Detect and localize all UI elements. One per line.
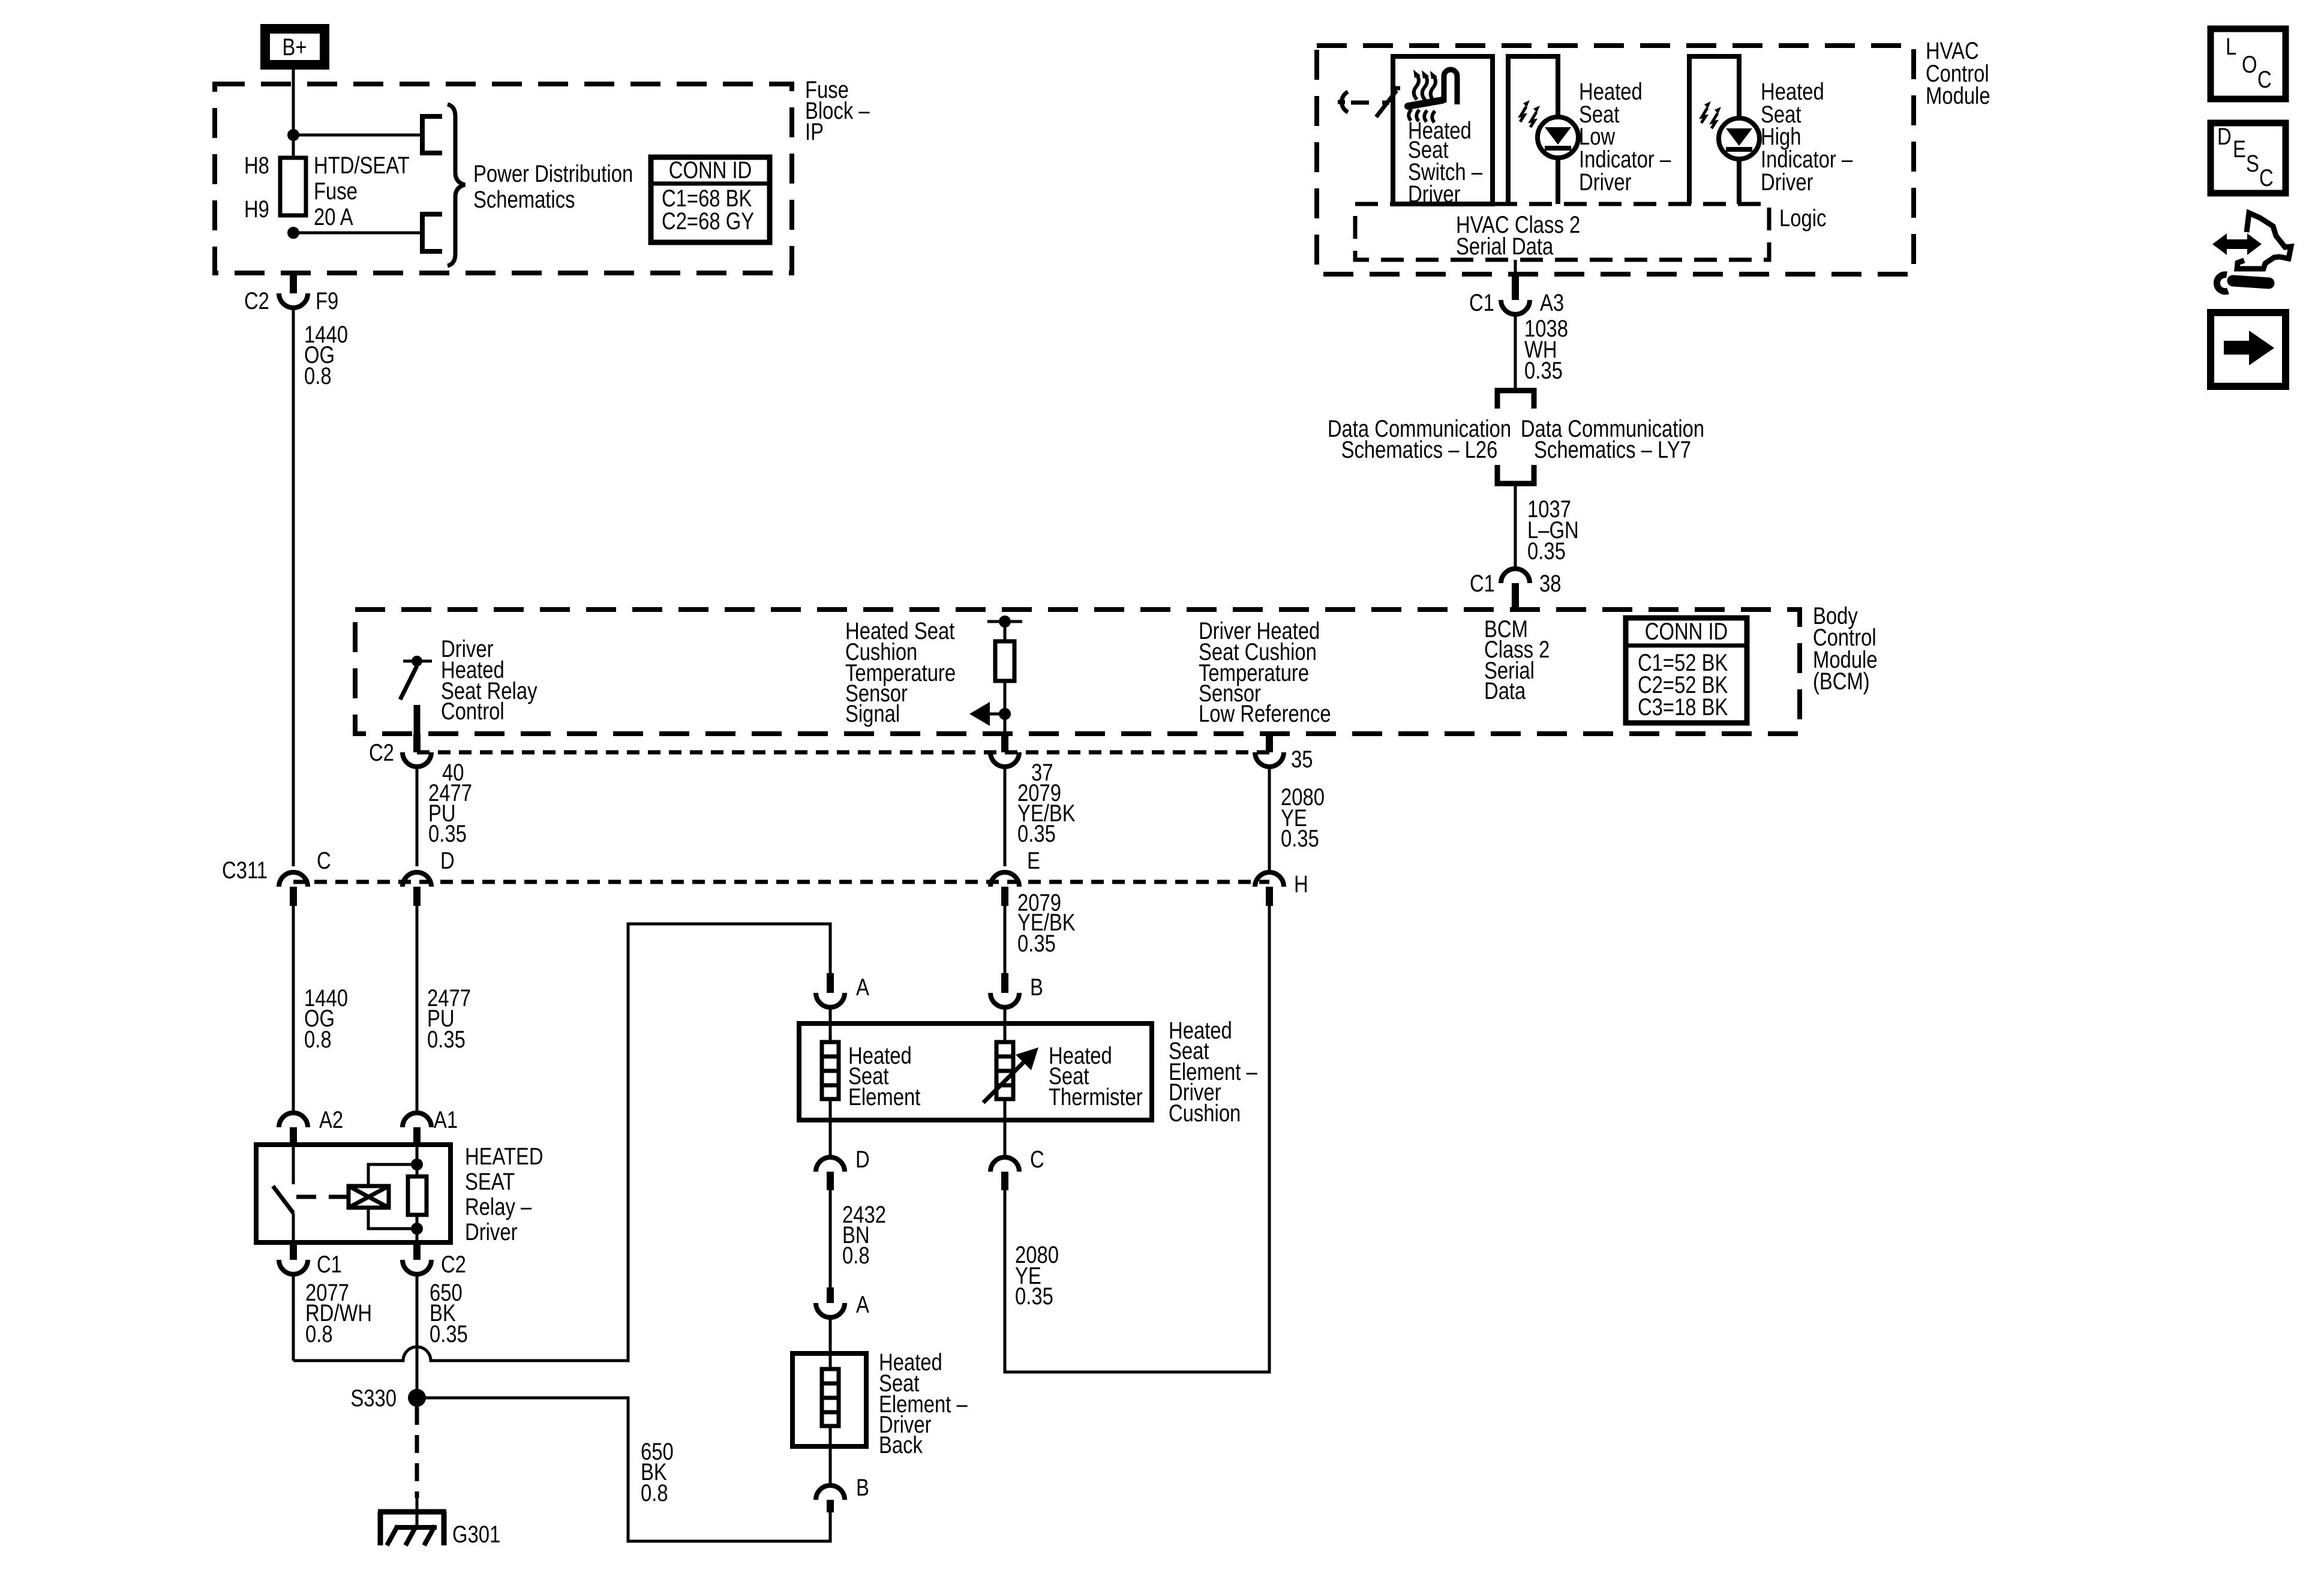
wire 1440 OG fuse to C311 bbox=[292, 308, 295, 866]
node coil bottom bbox=[411, 1223, 423, 1235]
module box Body Control Module (dashed) bbox=[355, 610, 1800, 734]
LED heated seat high indicator driver bbox=[1701, 101, 1759, 159]
BCM connector row (dotted) bbox=[417, 751, 1269, 755]
wire 1038 WH bbox=[1514, 314, 1517, 391]
node junction lower bbox=[287, 227, 299, 239]
relay driver switch (inside BCM) bbox=[400, 656, 432, 734]
label Driver Heated Seat Relay Control bbox=[441, 636, 538, 725]
fuse F9 HTD/SEAT 20A bbox=[280, 158, 306, 215]
svg-text:Relay –: Relay – bbox=[465, 1194, 532, 1220]
wire B+ to fuse H8 bbox=[292, 70, 295, 158]
svg-text:H8: H8 bbox=[244, 152, 269, 179]
connector row C311 (dotted) bbox=[293, 880, 1269, 884]
svg-text:D: D bbox=[855, 1146, 870, 1173]
svg-text:Element: Element bbox=[848, 1084, 920, 1110]
label 2077 RD/WH 0.8 bbox=[305, 1280, 372, 1347]
svg-text:Signal: Signal bbox=[845, 701, 900, 727]
label Power Distribution Schematics bbox=[473, 161, 633, 213]
svg-text:35: 35 bbox=[1291, 746, 1313, 773]
relay K1 HEATED SEAT Relay - Driver box bbox=[256, 1145, 451, 1242]
off-page bracket upper bbox=[422, 116, 442, 153]
wire 2432 BN element D to back A bbox=[829, 1190, 832, 1287]
label Heated Seat High Indicator - Driver bbox=[1761, 79, 1853, 196]
connector D (c311) bbox=[403, 872, 431, 906]
svg-text:B+: B+ bbox=[283, 34, 307, 61]
brace Power Distribution Schematics bbox=[448, 104, 465, 266]
label HEATED SEAT Relay - Driver bbox=[465, 1143, 544, 1245]
svg-text:0.8: 0.8 bbox=[304, 1026, 332, 1053]
label Body Control Module (BCM) bbox=[1813, 603, 1878, 695]
label 2080 YE 0.35 (upper) bbox=[1281, 784, 1325, 852]
icon LOC bbox=[2211, 29, 2286, 99]
label 650 BK 0.35 bbox=[430, 1280, 468, 1347]
svg-text:C2: C2 bbox=[244, 288, 269, 314]
label Heated Seat Cushion Temperature Sensor Signal bbox=[845, 618, 956, 727]
svg-text:0.8: 0.8 bbox=[641, 1480, 668, 1506]
temperature sensor pull-up (inside BCM) bbox=[987, 616, 1022, 734]
label Data Communication Schematics - LY7 bbox=[1521, 416, 1704, 463]
svg-text:0.35: 0.35 bbox=[1017, 821, 1056, 847]
icon service vehicle outline bbox=[2237, 213, 2291, 269]
svg-text:HEATED: HEATED bbox=[465, 1143, 544, 1170]
svg-text:Control: Control bbox=[441, 698, 505, 725]
logic box HVAC Class 2 Serial Data (dashed) bbox=[1355, 204, 1769, 260]
svg-text:Schematics – L26: Schematics – L26 bbox=[1341, 437, 1498, 463]
label 2432 BN 0.8 bbox=[842, 1202, 886, 1269]
svg-text:(BCM): (BCM) bbox=[1813, 668, 1870, 695]
power symbol B+ bbox=[265, 29, 325, 65]
svg-text:0.8: 0.8 bbox=[304, 363, 332, 389]
wire dashed switch actuator (hvac) bbox=[1351, 101, 1389, 105]
svg-text:C3=18 BK: C3=18 BK bbox=[1638, 694, 1728, 721]
svg-text:E: E bbox=[1027, 848, 1040, 874]
svg-text:Cushion: Cushion bbox=[1169, 1100, 1241, 1127]
svg-text:Module: Module bbox=[1926, 83, 1990, 109]
wire loop heated seat low indicator bbox=[1508, 56, 1558, 204]
wire 650 BK relay C2 to S330 bbox=[416, 1274, 419, 1398]
svg-text:C2: C2 bbox=[369, 740, 394, 766]
svg-text:C311: C311 bbox=[222, 857, 268, 884]
svg-text:CONN ID: CONN ID bbox=[1645, 619, 1728, 645]
svg-text:Schematics – LY7: Schematics – LY7 bbox=[1534, 437, 1691, 463]
svg-text:C2: C2 bbox=[441, 1251, 466, 1278]
svg-text:O: O bbox=[2242, 52, 2257, 78]
icon DESC bbox=[2211, 123, 2286, 193]
heated seat element (cushion) bbox=[822, 1023, 839, 1120]
svg-text:Power Distribution: Power Distribution bbox=[473, 161, 633, 187]
label Driver Heated Seat Cushion Temperature Sensor Low Reference bbox=[1199, 618, 1331, 727]
wire 1440 OG (C311 to relay A2) bbox=[292, 906, 295, 1113]
icon wrench bbox=[2217, 275, 2269, 292]
svg-text:C: C bbox=[2257, 67, 2272, 93]
off-page bracket lower bbox=[422, 214, 442, 251]
label Heated Seat Element - Driver Cushion bbox=[1169, 1017, 1257, 1127]
label Heated Seat Switch - Driver bbox=[1408, 118, 1483, 208]
svg-text:Serial Data: Serial Data bbox=[1456, 233, 1554, 260]
icon heated seat bbox=[1408, 70, 1457, 122]
connector 35 bbox=[1255, 734, 1284, 767]
relay actuator dashed link bbox=[296, 1195, 347, 1199]
wire serial data out of logic box bbox=[1514, 260, 1517, 275]
label 650 BK 0.8 bbox=[641, 1439, 674, 1506]
off-page bracket lower (data communication) bbox=[1497, 465, 1534, 484]
connector C1 A3 bbox=[1501, 275, 1530, 314]
svg-text:D: D bbox=[2217, 124, 2232, 150]
svg-text:C1: C1 bbox=[317, 1251, 342, 1278]
svg-text:CONN ID: CONN ID bbox=[669, 157, 752, 184]
svg-text:20 A: 20 A bbox=[314, 204, 353, 230]
label Data Communication Schematics - L26 bbox=[1328, 416, 1511, 463]
connector B (element cushion) bbox=[990, 973, 1019, 1023]
label 1038 WH 0.35 bbox=[1524, 316, 1568, 384]
svg-text:B: B bbox=[856, 1475, 869, 1501]
svg-text:Fuse: Fuse bbox=[314, 178, 358, 205]
heated seat thermister bbox=[983, 1023, 1038, 1120]
svg-text:E: E bbox=[2233, 136, 2246, 163]
svg-text:0.8: 0.8 bbox=[842, 1242, 870, 1269]
svg-text:HTD/SEAT: HTD/SEAT bbox=[314, 152, 410, 179]
node coil top bbox=[411, 1158, 423, 1170]
svg-text:S: S bbox=[2246, 151, 2259, 177]
component box heated seat element driver cushion bbox=[799, 1023, 1152, 1120]
wire 2080 YE (bcm to H) bbox=[1268, 767, 1271, 873]
svg-text:Driver: Driver bbox=[1579, 169, 1632, 196]
svg-text:C: C bbox=[317, 848, 331, 874]
svg-text:Thermister: Thermister bbox=[1049, 1084, 1143, 1110]
svg-text:C1: C1 bbox=[1469, 290, 1494, 316]
svg-text:C1: C1 bbox=[1470, 571, 1495, 597]
svg-text:Driver: Driver bbox=[1761, 169, 1813, 196]
wire junction to off-page bracket lower bbox=[293, 232, 422, 235]
svg-text:Logic: Logic bbox=[1779, 205, 1826, 232]
svg-text:0.35: 0.35 bbox=[1281, 825, 1319, 852]
wire 2080 YE element C to H bbox=[1005, 906, 1269, 1372]
component box heated seat element driver back bbox=[792, 1353, 866, 1446]
svg-text:0.35: 0.35 bbox=[1015, 1283, 1053, 1310]
label 2477 PU 0.35 (upper) bbox=[428, 780, 472, 847]
svg-text:Low Reference: Low Reference bbox=[1199, 701, 1331, 727]
arrow temperature sensor signal bbox=[969, 702, 1005, 726]
connector E (c311) bbox=[990, 872, 1019, 906]
svg-text:A2: A2 bbox=[319, 1107, 343, 1133]
svg-text:B: B bbox=[1030, 974, 1043, 1001]
label 2080 YE 0.35 (lower) bbox=[1015, 1242, 1059, 1310]
label 1440 OG 0.8 (upper) bbox=[304, 322, 348, 389]
svg-text:Data: Data bbox=[1484, 678, 1526, 704]
ground G301 bbox=[378, 1498, 446, 1545]
svg-text:Driver: Driver bbox=[465, 1219, 518, 1245]
wire 1037 L-GN bbox=[1514, 484, 1517, 569]
label HTD/SEAT Fuse 20 A bbox=[314, 152, 410, 230]
wire loop heated seat high indicator bbox=[1689, 56, 1739, 204]
svg-text:D: D bbox=[440, 848, 455, 874]
label Heated Seat Low Indicator - Driver bbox=[1579, 79, 1671, 196]
wire 2077 RD/WH relay C1 to element A (with hop) bbox=[293, 924, 830, 1361]
connector C311 C bbox=[279, 872, 308, 906]
svg-text:G301: G301 bbox=[452, 1521, 500, 1548]
label HVAC Class 2 Serial Data bbox=[1456, 212, 1580, 260]
wire coil parallel loop bbox=[368, 1164, 417, 1229]
relay resistor bbox=[408, 1176, 427, 1215]
svg-text:C2=68 GY: C2=68 GY bbox=[662, 208, 754, 235]
svg-text:A3: A3 bbox=[1540, 290, 1564, 316]
svg-text:F9: F9 bbox=[316, 288, 338, 314]
label Heated Seat Element bbox=[848, 1043, 920, 1110]
conn id table (BCM) bbox=[1626, 618, 1747, 723]
label 2477 PU 0.35 (lower) bbox=[427, 985, 471, 1053]
connector C (element cushion out) bbox=[990, 1120, 1019, 1190]
connector A1 (relay) bbox=[403, 1113, 431, 1145]
LED heated seat low indicator driver bbox=[1520, 100, 1578, 158]
svg-text:0.35: 0.35 bbox=[428, 821, 467, 847]
connector A2 (relay) bbox=[279, 1113, 308, 1145]
label HVAC Control Module bbox=[1926, 38, 1990, 109]
connector C2 F9 (fuse block output) bbox=[279, 273, 308, 308]
splice S330 bbox=[408, 1389, 426, 1407]
connector 37 bbox=[990, 734, 1019, 767]
connector C2 40 bbox=[403, 734, 431, 767]
wire A1 through resistor bbox=[416, 1145, 419, 1242]
label 1037 L-GN 0.35 bbox=[1527, 496, 1579, 565]
node junction upper bbox=[287, 129, 299, 141]
wire ground lead (dashed) bbox=[415, 1407, 419, 1498]
svg-text:IP: IP bbox=[805, 119, 824, 145]
off-page bracket upper (data communication) bbox=[1497, 391, 1534, 409]
svg-text:S330: S330 bbox=[350, 1385, 397, 1412]
connector B (element back) bbox=[816, 1446, 845, 1512]
svg-text:0.35: 0.35 bbox=[1017, 930, 1056, 957]
connector A (element cushion) bbox=[816, 973, 845, 1023]
connector H (c311) bbox=[1255, 872, 1284, 906]
svg-text:38: 38 bbox=[1539, 571, 1562, 597]
module box Fuse Block - IP (dashed) bbox=[215, 84, 792, 273]
connector C1 (relay out) bbox=[279, 1242, 308, 1274]
svg-text:0.35: 0.35 bbox=[1524, 358, 1563, 384]
svg-text:H: H bbox=[1294, 871, 1308, 897]
wire junction to off-page bracket upper bbox=[293, 134, 422, 137]
module box HVAC Control Module (dashed) bbox=[1317, 46, 1914, 274]
label Heated Seat Thermister bbox=[1049, 1043, 1143, 1110]
icon double arrow bbox=[2212, 233, 2262, 255]
conn id table (fuse block) bbox=[651, 157, 770, 242]
connector A (element back) bbox=[816, 1287, 845, 1353]
connector half (from switch feed) bbox=[1338, 92, 1348, 112]
label Fuse Block - IP bbox=[805, 77, 870, 145]
label 1440 OG 0.8 (lower) bbox=[304, 985, 348, 1053]
svg-text:SEAT: SEAT bbox=[465, 1169, 515, 1195]
svg-text:H9: H9 bbox=[244, 196, 269, 223]
connector D (element cushion out) bbox=[816, 1120, 845, 1190]
svg-text:0.35: 0.35 bbox=[427, 1026, 466, 1053]
svg-text:A: A bbox=[856, 974, 869, 1001]
heated seat element (back) bbox=[822, 1353, 839, 1446]
label Heated Seat Element - Driver Back bbox=[879, 1349, 968, 1458]
relay coil bbox=[349, 1186, 389, 1208]
label 2079 YE/BK 0.35 (lower) bbox=[1017, 890, 1076, 957]
wire 650 BK S330 to element B bbox=[417, 1398, 830, 1541]
svg-text:L: L bbox=[2226, 34, 2236, 60]
icon next page arrow bbox=[2211, 313, 2286, 386]
connector C1 38 bbox=[1501, 569, 1530, 610]
wire 2079 YE/BK (C311 E to element B) bbox=[1004, 906, 1007, 973]
svg-text:A1: A1 bbox=[434, 1107, 458, 1133]
wire 2477 PU (C311 to relay A1) bbox=[416, 906, 419, 1113]
switch arm (heated seat switch) bbox=[1376, 88, 1400, 117]
label BCM Class 2 Serial Data bbox=[1484, 616, 1550, 704]
wire 2477 PU (bcm to C311) bbox=[416, 767, 419, 866]
svg-text:0.35: 0.35 bbox=[1527, 538, 1566, 565]
svg-text:0.8: 0.8 bbox=[305, 1321, 333, 1347]
svg-text:Back: Back bbox=[879, 1432, 923, 1458]
relay switch contact bbox=[273, 1145, 293, 1242]
connector C2 (relay out) bbox=[403, 1242, 431, 1274]
label 2079 YE/BK 0.35 (upper) bbox=[1017, 780, 1076, 847]
svg-text:Schematics: Schematics bbox=[473, 187, 575, 213]
svg-text:C: C bbox=[1030, 1146, 1044, 1173]
svg-text:C: C bbox=[2259, 165, 2274, 191]
switch box Heated Seat Switch - Driver bbox=[1393, 56, 1493, 204]
svg-text:A: A bbox=[856, 1292, 869, 1318]
svg-text:0.35: 0.35 bbox=[430, 1321, 468, 1347]
wire 2079 YE/BK (bcm to C311) bbox=[1004, 767, 1007, 866]
